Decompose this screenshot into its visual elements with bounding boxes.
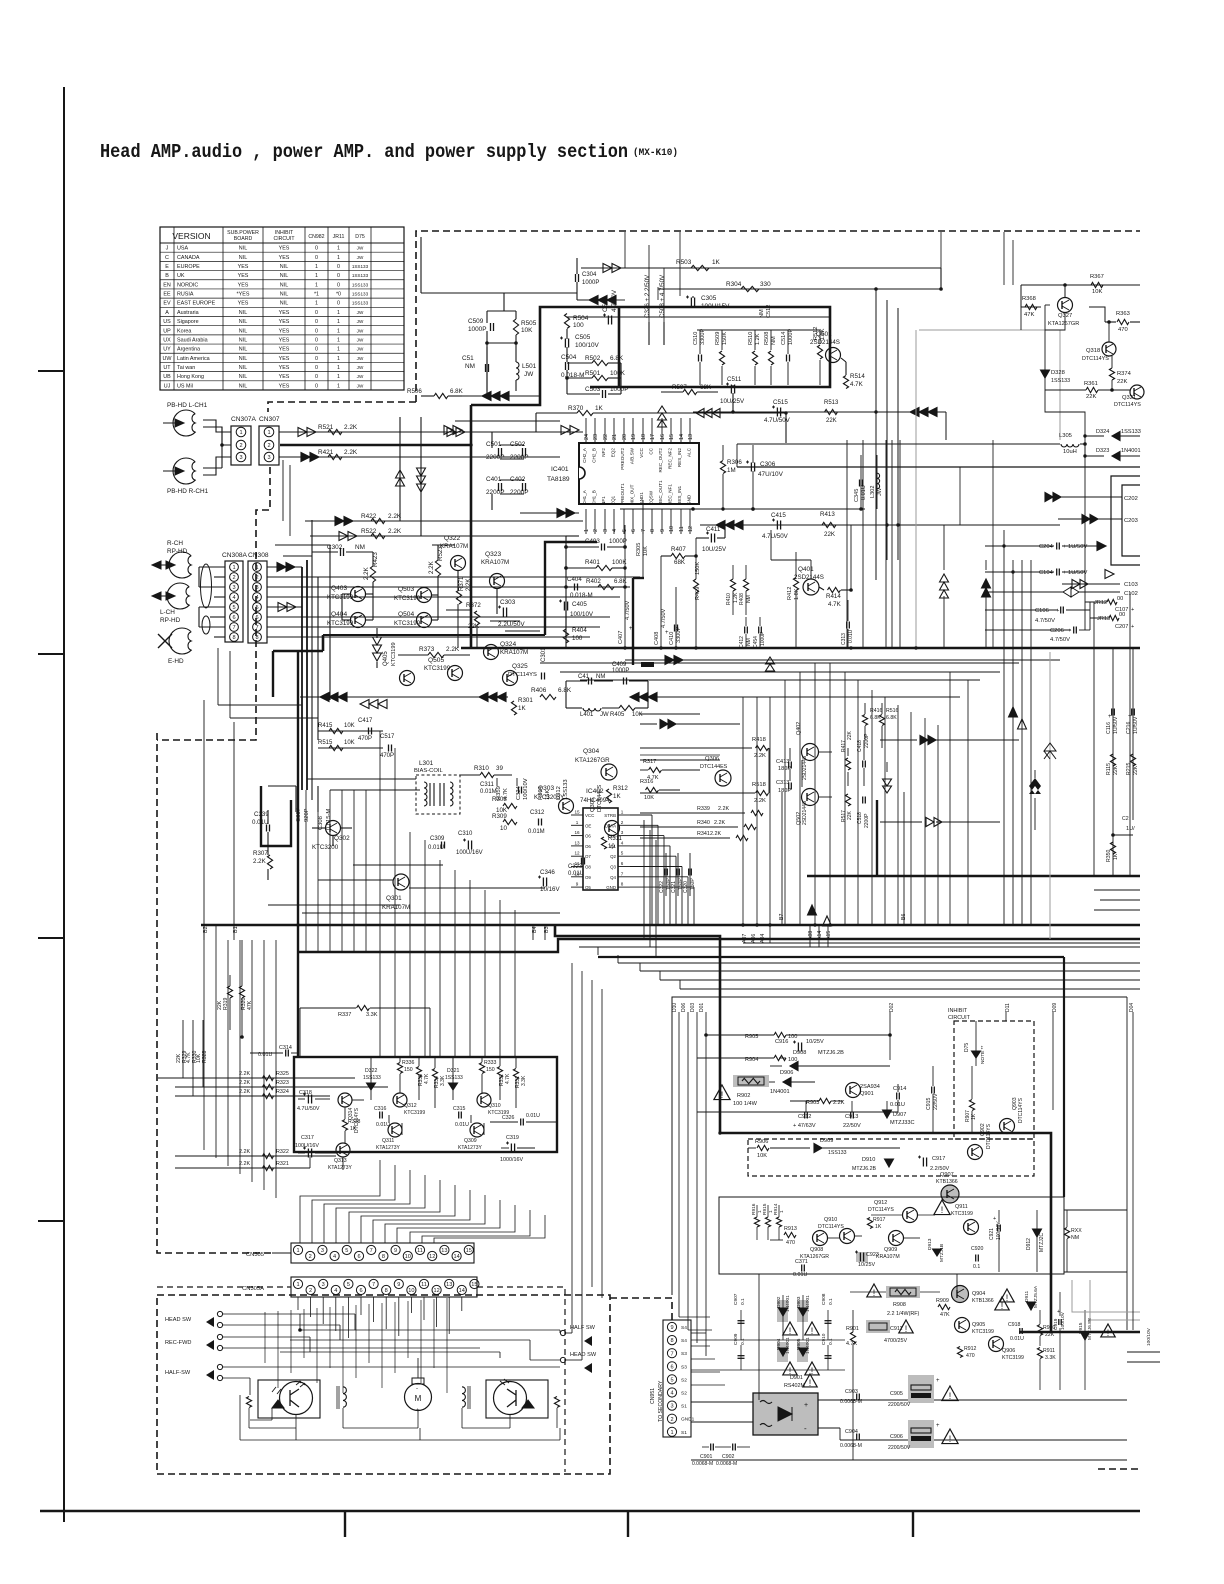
diode D324 (1112, 432, 1120, 441)
svg-text:NM: NM (596, 674, 605, 680)
svg-text:!: ! (809, 1378, 812, 1388)
svg-text:4.7/50V: 4.7/50V (625, 600, 631, 620)
warning triangles diodes (783, 1322, 797, 1335)
svg-text:HALF-SW: HALF-SW (165, 1370, 191, 1376)
wire drive block internals (352, 1099, 364, 1101)
wire y467 long rail (737, 466, 1140, 468)
svg-text:7: 7 (372, 1282, 375, 1288)
wire thick drive block box (294, 1057, 557, 1152)
svg-text:NIL: NIL (280, 264, 288, 270)
svg-text:2: 2 (255, 575, 258, 581)
capacitor C116 column (1112, 648, 1114, 835)
svg-text:BOARD: BOARD (234, 236, 253, 242)
diode triple open left x712 (712, 409, 720, 418)
svg-text:US Mil: US Mil (177, 383, 193, 389)
wire preamp links (366, 593, 373, 595)
svg-text:HEAD SW: HEAD SW (570, 1352, 597, 1358)
svg-text:Argentina: Argentina (177, 347, 200, 353)
svg-text:D908: D908 (793, 1050, 806, 1056)
svg-text:KTA1267GR: KTA1267GR (575, 757, 610, 764)
wire verticals under CN307 (282, 460, 284, 521)
svg-text:47K: 47K (247, 1000, 253, 1010)
svg-text:1: 1 (315, 273, 318, 279)
resistor R510 1.2K (752, 351, 757, 365)
svg-text:C418: C418 (857, 740, 863, 752)
svg-text:5: 5 (347, 1282, 350, 1288)
resistor R305 col (642, 500, 644, 578)
svg-text:C307: C307 (296, 808, 302, 822)
resistor R409 150K (693, 579, 698, 593)
svg-text:0: 0 (315, 319, 318, 325)
diode stack open up x400 (396, 478, 405, 486)
svg-text:1: 1 (337, 246, 340, 252)
svg-text:R509: R509 (715, 332, 721, 345)
svg-text:1: 1 (255, 565, 258, 571)
svg-text:0.1: 0.1 (973, 1264, 980, 1270)
svg-text:12: 12 (433, 1288, 439, 1294)
capacitor C320 col (689, 853, 691, 896)
svg-text:C413: C413 (776, 759, 789, 765)
svg-text:R317: R317 (643, 759, 656, 765)
svg-text:YES: YES (279, 383, 290, 389)
resistor R904 (774, 1055, 786, 1060)
svg-text:+ 1U/50V: + 1U/50V (1063, 544, 1087, 550)
svg-text:!: ! (811, 1366, 814, 1376)
svg-text:10: 10 (574, 871, 580, 876)
svg-text:Q911: Q911 (955, 1204, 968, 1210)
border tick y371 (38, 370, 64, 372)
junction dots sprinkle (469, 443, 472, 446)
svg-text:2200P: 2200P (510, 489, 528, 496)
svg-text:C304: C304 (582, 272, 597, 278)
svg-text:R307: R307 (253, 850, 268, 857)
svg-text:1SS133: 1SS133 (1051, 378, 1070, 384)
wire thick rail y936 (555, 925, 1140, 1332)
wire thick vertical x298 (297, 651, 299, 1057)
diode D906 (783, 1078, 791, 1087)
svg-text:YES: YES (238, 273, 249, 279)
connector CN308 (248, 561, 267, 643)
svg-text:RXX: RXX (1071, 1228, 1082, 1234)
svg-text:4.7K: 4.7K (503, 788, 509, 800)
svg-text:1M: 1M (727, 467, 736, 474)
svg-text:CC: CC (649, 447, 654, 454)
svg-text:10K: 10K (644, 795, 654, 801)
svg-text:1: 1 (337, 337, 340, 343)
svg-text:MTZJ1B: MTZJ1B (939, 1244, 945, 1262)
svg-text:EUROPE: EUROPE (177, 264, 200, 270)
svg-text:C923: C923 (866, 1252, 879, 1258)
svg-text:C515: C515 (773, 399, 788, 406)
opto coupler left box (258, 1380, 320, 1418)
capacitor C901 C902 (710, 1444, 712, 1451)
svg-text:UJ: UJ (164, 383, 171, 389)
diode open up x827 y914 (823, 916, 832, 926)
svg-text:0: 0 (315, 255, 318, 261)
svg-text:6.8K: 6.8K (614, 578, 628, 585)
svg-text:Q301: Q301 (386, 895, 402, 902)
wire y317 extension right (567, 316, 830, 318)
inductor L301 bias coil box (416, 775, 460, 814)
svg-text:C915: C915 (926, 1097, 932, 1110)
svg-text:14: 14 (459, 1288, 465, 1294)
svg-text:470: 470 (786, 1240, 795, 1246)
open diamond glyph x1050 (1044, 743, 1056, 759)
transistor Q313 (336, 1143, 350, 1157)
svg-text:JR11: JR11 (333, 234, 345, 240)
svg-text:6.8K: 6.8K (450, 388, 464, 395)
diode D913 (933, 1249, 942, 1256)
svg-text:R340: R340 (697, 820, 710, 826)
svg-text:4: 4 (232, 595, 235, 601)
svg-text:KRA107M: KRA107M (440, 543, 468, 550)
svg-text:C339: C339 (254, 811, 269, 818)
svg-text:3: 3 (232, 585, 235, 591)
wire mechanism verticals (264, 1312, 266, 1363)
wire left long drops to CN305 (203, 925, 205, 1150)
wire thick preamp frame (545, 542, 597, 635)
wire CN307 pin1 line (279, 431, 583, 433)
svg-text:Q2: Q2 (610, 854, 616, 859)
svg-text:1: 1 (337, 347, 340, 353)
svg-text:R514: R514 (850, 373, 865, 380)
opto diode right (522, 1400, 534, 1408)
svg-text:R337: R337 (338, 1012, 351, 1018)
svg-text:11: 11 (679, 526, 685, 532)
wire vertical x1130 (1129, 592, 1131, 876)
svg-text:VCC: VCC (639, 447, 644, 457)
svg-text:1K: 1K (712, 259, 721, 266)
wire nested frame lines left (643, 820, 645, 896)
svg-text:C102: C102 (1124, 591, 1138, 597)
svg-text:EQ1: EQ1 (611, 495, 616, 505)
svg-text:MTZJ6.2B: MTZJ6.2B (852, 1166, 876, 1172)
svg-text:S4: S4 (681, 1338, 687, 1344)
svg-text:R402: R402 (586, 578, 601, 585)
svg-text:R911: R911 (1043, 1348, 1055, 1354)
resistor R408 col (743, 579, 748, 591)
svg-text:22: 22 (603, 434, 609, 440)
svg-text:D328: D328 (1051, 370, 1065, 376)
svg-text:D907: D907 (893, 1112, 906, 1118)
diode D911 (1027, 1302, 1036, 1310)
svg-text:2200/50V: 2200/50V (888, 1402, 911, 1408)
wire PS bottom grid (691, 1339, 845, 1341)
svg-text:4: 4 (670, 1391, 673, 1397)
svg-text:10K: 10K (521, 327, 533, 334)
svg-text:NOTE **: NOTE ** (980, 1045, 986, 1064)
svg-text:CN982: CN982 (308, 234, 324, 240)
svg-text:R407: R407 (671, 546, 686, 553)
svg-text:YES: YES (279, 328, 290, 334)
svg-text:1SS133: 1SS133 (352, 292, 369, 297)
svg-text:C326 + 2.2/50V: C326 + 2.2/50V (644, 274, 651, 318)
svg-text:4: 4 (333, 1254, 336, 1260)
svg-text:2: 2 (267, 443, 270, 449)
svg-text:3: 3 (239, 455, 242, 461)
svg-text:1K: 1K (613, 793, 621, 800)
capacitor C504 (565, 362, 567, 370)
svg-text:22K: 22K (468, 623, 480, 630)
svg-text:C401: C401 (486, 476, 502, 483)
svg-text:R405: R405 (610, 712, 625, 718)
svg-text:C326: C326 (502, 1115, 515, 1121)
svg-text:8: 8 (650, 529, 656, 532)
svg-text:D75: D75 (355, 234, 365, 240)
wire y943 rail (743, 942, 1140, 944)
svg-text:!: ! (905, 1324, 908, 1334)
svg-text:CN307: CN307 (259, 416, 280, 423)
svg-text:39: 39 (496, 765, 503, 772)
svg-text:D11: D11 (1005, 1003, 1011, 1012)
svg-text:C116: C116 (1106, 722, 1112, 734)
svg-text:C518: C518 (857, 812, 863, 824)
svg-text:C919: C919 (1053, 1318, 1059, 1330)
resistor R514 (843, 376, 848, 389)
svg-text:MTZJ5.6A: MTZJ5.6A (1033, 1285, 1039, 1308)
transistor Q907 KTB1366 (941, 1185, 960, 1204)
svg-text:R912: R912 (964, 1346, 977, 1352)
svg-text:IC401: IC401 (551, 466, 569, 473)
svg-text:100U/16V: 100U/16V (295, 1143, 319, 1149)
svg-text:!: ! (949, 1434, 952, 1444)
transistor Q505 (448, 666, 463, 681)
svg-text:L301: L301 (419, 760, 434, 767)
svg-text:YES: YES (279, 347, 290, 353)
wire IC401 bottom leads (585, 509, 587, 534)
wire vertical x968 (967, 680, 969, 926)
svg-text:JW: JW (357, 383, 364, 388)
svg-text:S1: S1 (681, 1404, 687, 1410)
svg-text:*YES: *YES (237, 292, 250, 298)
svg-text:0.01U: 0.01U (861, 485, 867, 500)
svg-text:CN305: CN305 (246, 1252, 264, 1258)
resistor R423 (370, 566, 375, 582)
ladder row R323 (175, 1086, 388, 1088)
svg-text:2SD2144S: 2SD2144S (810, 339, 840, 346)
wire CN305A drops to mechanism (297, 1297, 299, 1310)
diode D323 (1112, 452, 1120, 461)
capacitor C323 (581, 858, 583, 865)
svg-text:100: 100 (573, 322, 584, 329)
transistor Q910 (840, 1229, 855, 1244)
svg-text:C508 + 4.7/50V: C508 + 4.7/50V (659, 274, 666, 318)
svg-text:A/B.SW: A/B.SW (630, 447, 635, 464)
diode D912 (1033, 1229, 1042, 1237)
svg-text:1N4001: 1N4001 (1121, 448, 1141, 454)
svg-text:R374: R374 (1117, 371, 1132, 377)
diode pair open R522 (339, 532, 348, 541)
svg-text:YES: YES (279, 255, 290, 261)
diode pair open y268 (603, 264, 612, 273)
svg-text:4.7U/50V: 4.7U/50V (762, 533, 789, 540)
svg-text:D06: D06 (681, 1003, 687, 1012)
capacitor C411 (710, 534, 712, 543)
svg-text:R410: R410 (726, 593, 732, 605)
svg-text:100/10V: 100/10V (570, 611, 594, 618)
diode triple solid y697 mid (648, 693, 657, 702)
svg-text:INHIBIT: INHIBIT (948, 1008, 968, 1014)
svg-text:D903: D903 (796, 1296, 802, 1308)
transistor Q504 (417, 613, 432, 628)
svg-text:Q907: Q907 (940, 1172, 954, 1178)
transistor Q404 (351, 613, 366, 628)
svg-text:2: 2 (232, 575, 235, 581)
dashed inner mech box (477, 1287, 565, 1472)
svg-text:YES: YES (279, 337, 290, 343)
resistor R907 col (969, 1100, 974, 1111)
capacitor C917 (922, 1158, 924, 1167)
wire frame corner verticals (643, 896, 645, 939)
svg-text:DTC114YS: DTC114YS (1018, 1097, 1024, 1123)
svg-text:12: 12 (574, 851, 580, 856)
svg-text:22K: 22K (1045, 1332, 1055, 1338)
capacitor C918 (1019, 1328, 1021, 1334)
svg-text:Q403: Q403 (331, 585, 347, 592)
resistor R513 (825, 409, 838, 414)
border tick y654 (38, 653, 64, 655)
transistor Q912 (903, 1208, 918, 1223)
transistor Q327 (1058, 298, 1073, 313)
svg-text:5: 5 (232, 605, 235, 611)
svg-text:4.7K: 4.7K (424, 1073, 430, 1084)
svg-text:C204: C204 (1039, 544, 1054, 550)
capacitor C911 (866, 1320, 890, 1333)
wire gray vertical x916 (915, 330, 917, 648)
border tick y1221 (38, 1220, 64, 1222)
svg-text:22K: 22K (847, 730, 853, 740)
svg-text:D02: D02 (889, 1003, 895, 1012)
wire bias links (267, 810, 269, 824)
svg-text:7: 7 (641, 529, 647, 532)
svg-text:R364: R364 (538, 785, 544, 800)
svg-text:C412: C412 (739, 636, 745, 648)
svg-text:JW: JW (357, 319, 364, 324)
inductor L501 (516, 362, 519, 380)
svg-text:C408: C408 (654, 632, 660, 645)
wire x1085 to L305 (1020, 307, 1022, 330)
svg-text:1: 1 (337, 356, 340, 362)
svg-text:NIL: NIL (280, 282, 288, 288)
svg-text:5: 5 (670, 1378, 673, 1384)
diode pair open y584 (1062, 583, 1120, 585)
wire right edge stubs (1127, 1351, 1160, 1353)
diode arrow y546 (1097, 542, 1106, 551)
svg-text:22/50V: 22/50V (843, 1123, 861, 1129)
svg-text:C371: C371 (795, 1259, 808, 1265)
svg-text:A08: A08 (808, 931, 814, 940)
svg-text:2.2K: 2.2K (466, 579, 472, 591)
svg-text:1K: 1K (518, 705, 526, 712)
svg-text:YES: YES (279, 319, 290, 325)
svg-text:330: 330 (760, 281, 771, 288)
svg-text:150P: 150P (690, 878, 696, 890)
svg-text:+: + (936, 1423, 940, 1429)
svg-text:1.2K: 1.2K (755, 333, 761, 345)
svg-text:6: 6 (255, 615, 258, 621)
svg-text:6.8K: 6.8K (558, 687, 572, 694)
svg-text:CH2_B: CH2_B (592, 448, 597, 463)
svg-text:C908: C908 (821, 1293, 827, 1305)
svg-text:CN307A: CN307A (231, 416, 257, 423)
svg-text:C511: C511 (727, 376, 742, 383)
azimuth lens small (202, 616, 210, 634)
svg-text:18: 18 (641, 434, 647, 440)
svg-text:150: 150 (486, 1067, 495, 1073)
svg-text:3.3K: 3.3K (521, 1075, 527, 1086)
warning triangle D911 (995, 1297, 1009, 1310)
svg-text:10K: 10K (643, 546, 649, 556)
svg-text:8: 8 (232, 635, 235, 641)
resistor R370 (577, 410, 593, 415)
svg-text:4: 4 (255, 595, 258, 601)
wire y421 run (455, 420, 560, 422)
capacitor C316 (379, 1112, 381, 1119)
wire verticals bias area (496, 778, 498, 786)
diode D75 (972, 1051, 981, 1058)
resistor R910 (1037, 1325, 1042, 1336)
svg-text:L-CH: L-CH (160, 609, 175, 616)
resistor R338 (342, 1120, 347, 1131)
svg-text:4.7K: 4.7K (505, 1073, 511, 1084)
svg-text:Q501: Q501 (816, 331, 832, 338)
svg-text:CH2_A: CH2_A (582, 447, 587, 463)
wire right vertical bundle (1003, 530, 1005, 925)
resistor R417 22K col (845, 758, 850, 770)
diode pair open up x770 y658 (766, 664, 775, 671)
svg-text:R505: R505 (521, 320, 537, 327)
svg-text:R341: R341 (697, 831, 710, 837)
diode pair open y822 (926, 818, 934, 827)
svg-text:C41: C41 (578, 674, 590, 680)
wire thick rail y925 (201, 924, 1140, 926)
svg-text:R367: R367 (1090, 274, 1104, 280)
svg-text:C902: C902 (722, 1454, 735, 1460)
transistor Q901 2SA934 (846, 1083, 861, 1098)
resistor R503 1K (691, 265, 709, 270)
op-amp IC401 TA8189 (579, 443, 699, 504)
svg-text:C303: C303 (500, 599, 516, 606)
capacitor C405 100/10V (563, 602, 565, 611)
svg-text:10K: 10K (1092, 289, 1102, 295)
capacitor C417 (368, 728, 370, 735)
box C202 C203 outer (1111, 476, 1140, 565)
wire B stubs (203, 925, 205, 940)
svg-text:2.2K: 2.2K (710, 831, 721, 837)
wire amp box (768, 748, 770, 793)
resistor R367 (1091, 282, 1103, 287)
svg-text:22K: 22K (1117, 379, 1127, 385)
svg-text:R333: R333 (484, 1060, 497, 1066)
svg-text:-: - (416, 1386, 418, 1392)
resistor R319 (227, 986, 232, 998)
svg-text:CH1_A: CH1_A (582, 489, 587, 505)
svg-text:13: 13 (441, 1248, 447, 1254)
resistor R402 (598, 584, 614, 589)
wire L401 loop (565, 681, 567, 708)
svg-text:VERSION: VERSION (172, 231, 210, 241)
wire R503 line (581, 267, 941, 269)
wire thick vertical left rail (470, 405, 473, 648)
svg-text:2SD2144S: 2SD2144S (802, 755, 808, 780)
svg-text:R406: R406 (531, 687, 547, 694)
svg-text:NIL: NIL (239, 255, 247, 261)
wire long rails y663-685 (540, 662, 1019, 664)
svg-text:1K: 1K (875, 1224, 882, 1230)
resistor RXX (1064, 1228, 1069, 1239)
resistor R401 (596, 565, 612, 570)
svg-text:CN308: CN308 (248, 552, 269, 559)
